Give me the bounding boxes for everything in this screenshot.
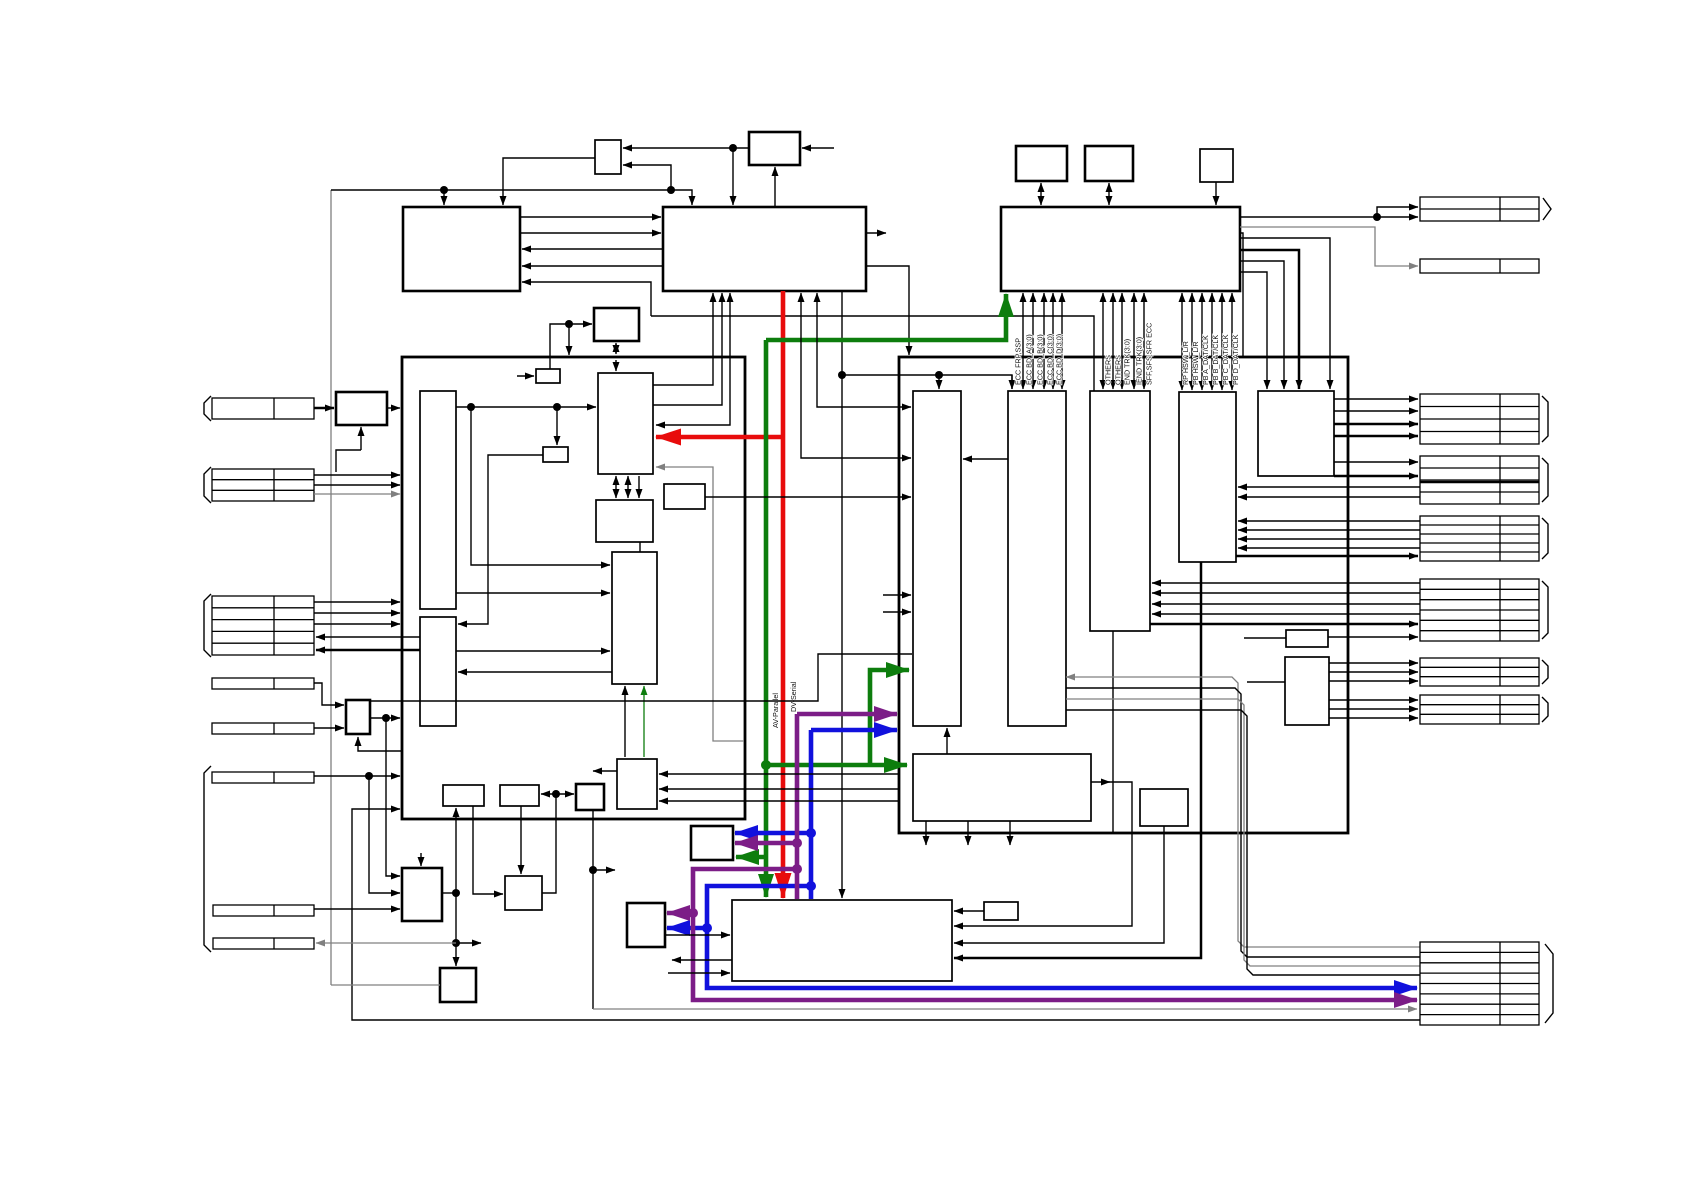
box R (sw) [984,902,1018,920]
svg-text:ECC BD_B(3:0): ECC BD_B(3:0) [1036,334,1045,385]
wire B right stub [866,232,886,234]
connector C6 [212,772,314,783]
wire stub 593 right [593,869,615,871]
wire D to C green [643,686,645,757]
junction dot 456,943 [452,939,460,947]
box H (EEPROM) [594,308,639,341]
connector T1 [1420,197,1539,221]
bracket G1 [1542,396,1548,442]
svg-text:ECC BD_A(3:0): ECC BD_A(3:0) [1025,334,1034,385]
bus ECC arrow x1012 [1011,375,1013,389]
box3 (servo DSP) [1090,391,1150,631]
blue dot 707,928 [702,923,712,933]
wire M-G link 1 [615,476,617,498]
box N (loading) [691,826,733,860]
connector G7 bottom-right [1420,942,1539,1025]
wire 386 down to M1 [386,718,400,876]
junction dot 556,794 [552,790,560,798]
wire box4 bottom to P [954,562,1201,958]
bracket G7 [1545,944,1553,1023]
wire gray to M3 [331,984,440,986]
wire B2 out y238 to V [1240,238,1330,389]
connector G2 [1420,456,1539,504]
wire TR right stub [802,147,834,149]
wire F out to module [370,717,400,719]
wire stub to box1 y612 [883,611,911,613]
box B2 (mechanism CPU) [1001,207,1240,291]
svg-text:SFF,SFS,SFR ECC: SFF,SFS,SFR ECC [1145,323,1154,385]
svg-text:PB C_DAT/CLK: PB C_DAT/CLK [1221,334,1230,385]
wire W to G4 [1328,636,1418,638]
connector C5 [212,723,314,734]
junction dot 593,870 [589,866,597,874]
bus OTHERS line 5 [1143,293,1145,389]
wire G3 to box4 2 [1238,529,1420,531]
wire G2 to box4 2 [1238,496,1420,498]
wire G3 to box4 3 [1238,538,1420,540]
wire wide box down arrow 2 [967,821,969,845]
svg-text:ECC FRP,SSP: ECC FRP,SSP [1014,338,1023,385]
wire long y316 to box3 top [651,316,1094,391]
wire chain to M3 [455,893,457,966]
wire TR to SB1 pin1 [623,147,749,149]
wire jog F to box1 [370,654,912,701]
wire V out 3 thick [1334,423,1418,426]
box M1 (drum servo) [402,868,442,921]
right module boundary [899,357,1348,833]
wire L2 out to c3 thin [316,636,420,638]
bracket C6-C8 big [204,766,211,952]
connector C4 [212,678,314,689]
wire B2 out y250 thick to V [1240,250,1299,389]
connector C1 [212,398,314,419]
wire D to C black [624,686,626,757]
green dot 766,765 [761,760,771,770]
wire R to P [954,910,984,912]
blue dot 811,833 [806,828,816,838]
box2 (EQ/ECC) [1008,391,1066,726]
purple dot 797,843 [792,838,802,848]
wire 557 down to K2 [556,407,558,445]
green bus to B2 bottom [766,294,1006,340]
wire M to B via 713 [653,293,713,385]
box S2 (ROM) [1085,146,1133,181]
bracket G3 [1542,518,1548,559]
wire B2 out y261 to V [1240,261,1284,389]
wide box (drum interface) [913,754,1091,821]
junction dot 369,776 [365,772,373,780]
connector G3 [1420,516,1539,561]
green branch arrow to wide box [766,763,907,768]
wire L4-F2 link [541,793,574,795]
bracket C1 [204,396,211,421]
bus OTHERS line 2 [1112,293,1114,389]
purple tail into P [795,869,800,899]
svg-text:RP HSW_L/R: RP HSW_L/R [1181,341,1190,385]
wire B to A 2 [522,265,663,267]
green bus vertical [764,340,769,897]
wire B to box1 via 801 [801,293,911,458]
svg-text:PB HSW_L/R: PB HSW_L/R [1191,341,1200,385]
arrowhead mid wide-box wire [1103,781,1110,783]
wire G4 to box3 2 [1152,592,1420,594]
bus ECC line 3 [1043,293,1045,389]
wire C1 to E [314,407,334,410]
junction dot 456,893 [452,889,460,897]
svg-text:ECC BD_D(3:0): ECC BD_D(3:0) [1055,334,1064,385]
wire box3 bottom vertical [1112,631,1114,833]
wire B2 out y272 to V [1240,272,1267,389]
wire H to module edge updown [615,343,617,354]
wire K loop to H [550,324,592,369]
bus OTHERS line 1 [1102,293,1104,389]
wire V out 4 thick [1334,435,1418,438]
wire gray jog to M [656,467,744,741]
connector C2 3row [212,469,314,501]
box S1 (RAM) [1016,146,1067,181]
wire drop 939 into box1 top [938,375,940,389]
box C (field memory) [612,552,657,684]
wire X to G6 2 [1329,708,1418,710]
purple dot 797,869 [792,864,802,874]
junction dot 671,190 [667,186,675,194]
box L4 [500,785,539,806]
wire D out arrows 1 [659,773,899,775]
wire branch to SB1 pin2 [623,165,671,190]
box M2 (capstan) [505,876,542,910]
wire box2 to box1 [963,458,1008,460]
box G (memory ctl) [596,500,653,542]
connector C7 [213,905,314,916]
bracket G5 [1542,660,1548,684]
wire V out 5 [1334,461,1418,463]
wire C2 row2 [314,484,400,486]
wire V out 6 thick [1334,475,1418,478]
wire stub to P y973 [668,972,730,974]
wire A to B 2 [520,232,661,234]
wire G4 to box3 3 [1152,603,1420,605]
wire to G7 row7 gray [593,1008,1417,1010]
wire drop 733 into B top [732,148,734,205]
junction dot 557,407 [553,403,561,411]
wire M1 stub top [420,853,422,866]
box L2 (D/A back) [420,617,456,726]
wire E to module [387,407,400,409]
small box SB1 (reset IC) [595,140,621,174]
wire E bottom loop [360,427,362,450]
wire Q to P [665,934,730,936]
wire 664box to box1 [705,496,911,498]
bracket G2 [1542,458,1548,502]
wire G3 to box4 4 [1238,547,1420,549]
wire G2 to box4 1 [1238,486,1420,488]
box L1 (A/D front) [420,391,456,609]
junction dot 733,148 [729,144,737,152]
junction dot 842,375 [838,371,846,379]
wire stub right 483 [456,942,481,944]
bracket G4 [1542,581,1548,639]
blue elbow to module edge [811,728,897,733]
box E (input amp) [336,392,387,425]
junction dot 444,190 [440,186,448,194]
wire A to B 1 [520,216,661,218]
blue tail into P [809,886,814,899]
svg-text:PB B_DAT/CLK: PB B_DAT/CLK [1211,335,1220,385]
wire M-G link 2 [627,476,629,498]
wire D out arrows 3 [659,800,899,802]
wire C to L2 [458,671,612,673]
wire L2 to C [456,650,610,652]
bus PB line 4 [1211,293,1213,390]
box small 664 (AGC) [664,484,705,509]
wire module edge to M top [615,360,617,371]
wire B down to P [841,291,843,898]
junction dot 1377,217 [1373,213,1381,221]
wire wide box down arrow 3 [1009,821,1011,845]
wire G3 to box4 1 [1238,520,1420,522]
box X (DAC) [1285,657,1329,725]
wire jog 651 to A [522,282,651,316]
wire X to G6 3 [1329,717,1418,719]
wire stub to box1 y595 [883,594,911,596]
wire M1 to chain [442,892,456,894]
box F2 (char gen) [576,784,604,810]
box TR (clock osc) [749,132,800,165]
wire gray main vertical [330,190,332,985]
box Q (tray) [627,903,665,947]
wire M-G link 3 [638,476,640,498]
box L3 [443,785,484,806]
svg-text:OTHERS: OTHERS [1104,355,1113,385]
wire L4 to M2 [520,806,522,874]
box K2 (sync sep) [543,447,568,462]
wire K stub [517,375,534,377]
wire stub to W [1244,637,1286,639]
box1 (head amp A) [913,391,961,726]
wire X to G5 2 [1329,671,1418,673]
box K (buffer) [536,369,560,383]
connector C3 5row [212,596,314,655]
wire D out arrows 2 [659,788,899,790]
green elbow arrow to box1 [870,670,909,765]
wire 569 down to module top [568,324,570,355]
box A (servo controller) [403,207,520,291]
wire C7 to M1 [314,908,400,910]
wire L1 to M with dots [456,406,596,408]
wire box4 to G3 thick [1236,555,1418,558]
wire E loop to C2 [336,450,361,472]
wire wide box down arrow 1 [925,821,927,845]
wire B to box1 via 817 [817,293,911,407]
bus ECC line 5 [1061,293,1063,389]
svg-text:IEND TRK(3:0): IEND TRK(3:0) [1135,337,1144,385]
connector G2 thick row line [1420,481,1539,484]
bundle wire 4 [1066,710,1420,975]
wire C8 gray arrow [316,942,456,944]
svg-text:PB D_DAT/CLK: PB D_DAT/CLK [1231,334,1240,385]
svg-text:PB A_DAT/CLK: PB A_DAT/CLK [1201,335,1210,385]
wire F2 bottom vertical [592,810,594,1009]
wire L3 chain up-arrow [455,808,457,893]
wire S1 to B2 [1040,183,1042,205]
green branch to N [736,855,766,860]
box S3 (xtal) [1200,149,1233,182]
wire B to A 1 [522,248,663,250]
wire drop into A top [443,190,445,205]
wire to T1 row2 [1377,216,1418,218]
wire box3 to G4 thick [1150,623,1418,626]
wire K2 to L2 [458,455,543,624]
junction dot 569,324 [565,320,573,328]
wire G4 to box3 4 [1152,613,1420,615]
bus OTHERS line 4 [1133,293,1135,389]
wire wide box to P [954,782,1132,926]
wire M to B via 722 [653,293,722,405]
wire bus y190 to B top [331,190,692,205]
box S (sensor amp) [1140,789,1188,826]
junction dot 386,718 [382,714,390,722]
connector G5 [1420,658,1539,686]
bus PB line 1 [1181,293,1183,390]
box D (mixer) [617,759,657,809]
wire V out 1 [1334,398,1418,400]
bus PB line 2 [1191,293,1193,390]
box F (Y/C amp) [346,700,370,734]
bracket C3 [204,594,211,657]
bracket G6 [1542,697,1548,722]
wire C4 to F [314,683,344,705]
wire box1 up from wide box [946,728,948,754]
wire 471 down to C [471,407,610,565]
blue branch to Q [667,926,707,931]
wire L1 to C [456,592,610,594]
red bus branch to M [656,435,783,440]
wire C3 row3 [314,623,400,625]
bundle wire 2 [1066,688,1420,957]
bus OTHERS line 3 [1121,293,1123,389]
bundle wire 3 [1066,699,1420,966]
bracket T1 [1543,198,1551,220]
wire stub to X [1247,681,1285,683]
junction dot 939,375 [935,371,943,379]
svg-text:AV-Parallel: AV-Parallel [771,693,780,728]
wire F bottom loop [358,737,402,751]
red bus DV-Serial vertical [781,291,786,898]
wire G-C link [639,542,641,552]
bus PB line 3 [1201,293,1203,390]
wire B2 to T1 trunk [1240,216,1377,218]
blue branch to N [735,831,811,836]
connector T2 [1420,259,1539,273]
box M (video proc) [598,373,653,474]
svg-text:END TRK(3:0): END TRK(3:0) [1123,339,1132,385]
wire to T1 row1 [1377,207,1418,217]
connector G6 [1420,695,1539,724]
box4 (PB amp) [1179,392,1236,562]
bracket C2 [204,467,211,503]
wire SB1 left to A top [503,158,595,205]
purple branch to Q [667,911,693,916]
wire C5 to F [314,727,344,729]
wire 556 down to M2 right [542,794,556,893]
wire X to G5 1 [1329,662,1418,664]
wire B2 out y233 [1240,233,1243,357]
wire 369 down to M1 [369,776,400,893]
wire S3 to B2 [1215,182,1217,205]
wire S2 to B2 [1108,183,1110,205]
bus ECC line 1 [1022,293,1024,389]
wire C3 row1 [314,601,400,603]
wire B right to module top [866,266,909,355]
blue dot 811,886 [806,881,816,891]
wire C2 row3 gray [314,493,400,495]
connector G4 [1420,579,1539,641]
svg-text:ECC BD_C(3:0): ECC BD_C(3:0) [1046,334,1055,385]
wire P left out [672,959,732,961]
bundle wire 1 [1066,677,1420,947]
svg-text:OTHERS: OTHERS [1114,355,1123,385]
wire L2 out to c3 thick [316,649,420,652]
bus PB line 6 [1231,293,1233,390]
blue main run [707,730,1417,988]
box M3 (motor drive) [440,968,476,1002]
bus ECC line 2 [1032,293,1034,389]
purple dot 693,913 [688,908,698,918]
wire B top to TR bottom [774,167,776,207]
wire S bottom to P [954,826,1164,943]
wire X to G6 1 [1329,699,1418,701]
purple elbow to module edge [797,712,897,717]
purple main run [693,714,1417,1000]
box V (REC driver) [1258,391,1334,476]
wire C2 row1 [314,474,400,476]
wire D left stub [593,770,617,772]
wire X to G5 3 [1329,680,1418,682]
box B (main CPU) [663,207,866,291]
wire G4 to box3 1 [1152,582,1420,584]
wire gray B2 to T2 [1240,227,1418,266]
wire C6 to module [314,775,400,777]
wire V out 2 [1334,410,1418,412]
junction dot 471,407 [467,403,475,411]
wire row8 long to module [352,809,1420,1020]
box W (mute) [1286,630,1328,647]
svg-text:DV-Serial: DV-Serial [789,681,798,712]
box P (system control) [732,900,952,981]
wire C3 row2 [314,612,400,614]
bus PB line 5 [1221,293,1223,390]
purple branch to N [735,841,797,846]
bus ECC line 4 [1052,293,1054,389]
wire L3b to M2 left [473,806,503,894]
wire y375 to ECC first line [842,375,1012,389]
connector C8 [213,938,314,949]
wire B to M via 730 [656,293,730,425]
left module boundary [402,357,745,819]
connector G1 [1420,394,1539,444]
